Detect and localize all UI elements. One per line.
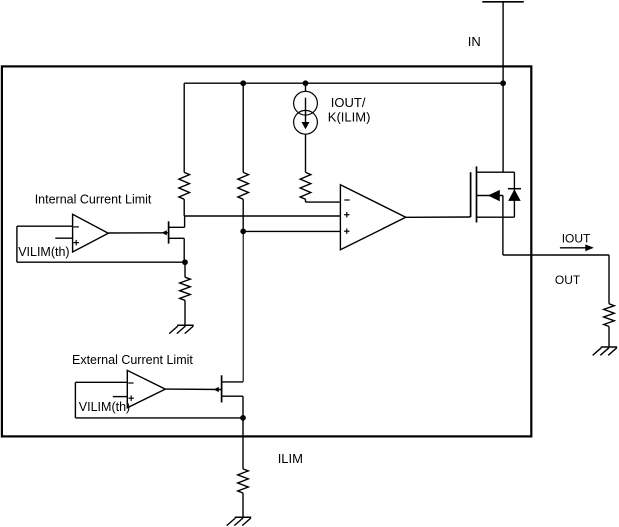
wire feedback bottom rail: [17, 261, 185, 263]
node junction dot (external source / feedback / ILIM): [240, 415, 246, 421]
wire body to source/OUT: [502, 196, 504, 256]
resistor (ILIM setting): [238, 469, 249, 517]
resistor (internal source degeneration): [180, 262, 191, 325]
comparator plus sign 2: [344, 230, 349, 232]
wire comparator plus2 input: [243, 230, 340, 232]
resistor (current source load): [300, 134, 311, 202]
op-amp external minus sign: [128, 382, 133, 384]
ground (ILIM resistor): [227, 517, 252, 525]
wire VILIM(th) reference stub: [55, 237, 72, 239]
wire IN vertical: [502, 2, 504, 83]
op-amp internal plus sign: [74, 242, 79, 244]
ground (load resistor): [593, 347, 618, 355]
transistor external limit FET: [214, 375, 243, 402]
node junction dot (internal source / feedback): [182, 259, 188, 265]
diode body diode triangle: [508, 189, 521, 201]
diode body diode cathode bar: [508, 188, 521, 190]
power rail bar (IN supply): [482, 1, 524, 3]
svg-text:IOUT: IOUT: [562, 232, 591, 246]
svg-text:VILIM(th): VILIM(th): [79, 400, 130, 414]
IC boundary box: [2, 66, 531, 436]
svg-text:IN: IN: [468, 34, 481, 49]
wire main FET drain to rail: [502, 83, 504, 172]
op-amp internal current limit: [73, 214, 109, 252]
svg-text:Internal Current Limit: Internal Current Limit: [35, 192, 152, 206]
node junction dot (rail / R2 column): [240, 80, 246, 86]
wire internal FET source: [183, 238, 185, 262]
wire external op-amp output: [165, 388, 221, 390]
op-amp internal minus sign: [74, 226, 79, 228]
current source IOUT/K(ILIM): [294, 83, 318, 134]
op-amp external plus sign: [129, 397, 134, 399]
svg-text:External Current Limit: External Current Limit: [72, 353, 193, 367]
svg-text:ILIM: ILIM: [278, 451, 303, 466]
transistor main pass FET source stub: [477, 216, 515, 218]
resistor (left sense): [179, 83, 190, 216]
wire OUT: [503, 254, 609, 256]
wire comparator output: [406, 216, 471, 218]
op-amp external current limit: [127, 370, 165, 407]
transistor main pass FET drain stub: [477, 171, 515, 173]
transistor internal limit FET: [162, 221, 185, 243]
wire external FET source: [242, 396, 244, 418]
diode body diode line: [513, 172, 515, 217]
wire internal sense node to comparator plus1: [184, 215, 340, 217]
wire internal op-amp inverting input: [17, 225, 73, 227]
svg-text:K(ILIM): K(ILIM): [328, 109, 371, 124]
ground (internal resistor): [169, 325, 194, 333]
transistor main pass FET gate bar: [470, 172, 472, 217]
wire external loop left vertical: [74, 382, 76, 418]
transistor main pass FET body stub and arrow: [477, 190, 503, 201]
svg-text:IOUT/: IOUT/: [331, 95, 366, 110]
wire external op-amp inverting input: [75, 381, 127, 383]
wire ILIM pin: [242, 418, 244, 469]
wire internal op-amp output: [108, 232, 168, 234]
transistor main pass FET channel bar: [476, 166, 478, 222]
wire external feedback bottom rail: [75, 417, 243, 419]
wire top rail: [184, 82, 503, 84]
node junction dot (rail / current source): [303, 80, 309, 86]
resistor (load on OUT): [604, 255, 615, 347]
node junction dot (plus2 / external FET drain): [240, 229, 246, 235]
arrow IOUT current direction: [560, 244, 594, 251]
label IOUT/K(ILIM): [328, 95, 371, 124]
op-amp main comparator: [340, 185, 405, 250]
wire internal FET drain: [184, 216, 186, 227]
comparator plus sign 1: [344, 214, 349, 216]
comparator minus sign: [344, 199, 349, 201]
svg-text:OUT: OUT: [555, 273, 581, 287]
wire external FET drain long vertical: [242, 231, 244, 382]
wire external VILIM(th) stub: [113, 396, 128, 398]
svg-text:VILIM(th): VILIM(th): [18, 245, 69, 259]
resistor (middle divider): [238, 83, 249, 231]
wire to comparator inverting input: [306, 201, 341, 203]
node junction dot (rail / IN wire): [500, 80, 506, 86]
wire feedback loop left vertical: [16, 226, 18, 262]
